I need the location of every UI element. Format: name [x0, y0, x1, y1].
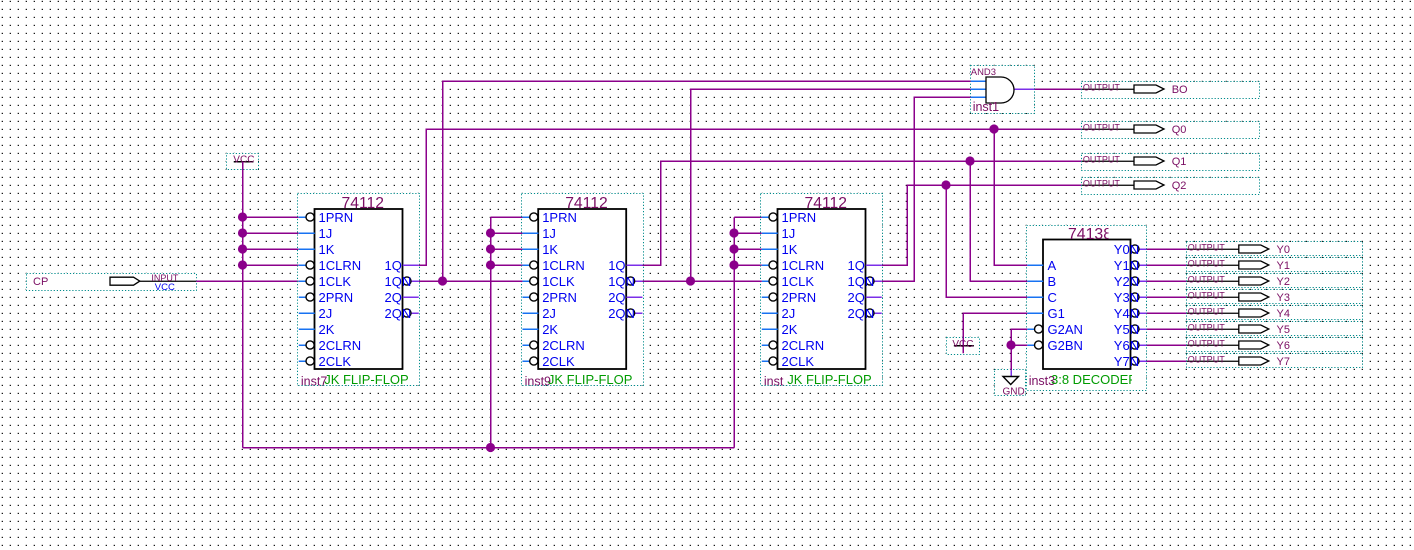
svg-text:2CLK: 2CLK: [319, 354, 352, 369]
svg-text:74112: 74112: [565, 195, 608, 212]
white symbol region backdrop: and-gate U4: [970, 66, 1035, 114]
junction Q1 net / decoder B drop: [965, 156, 974, 165]
svg-text:G2AN: G2AN: [1048, 322, 1083, 337]
svg-text:2K: 2K: [542, 322, 558, 337]
wire VCC tap to FF1 pin row y=217: [243, 216, 299, 218]
input pin CP (net CP, default VCC): [27, 273, 197, 293]
wire AND3 output to BO output pin: [1035, 88, 1082, 90]
output pin Y1: [1187, 258, 1363, 273]
junction FF3 riser / 1J: [729, 228, 738, 237]
svg-text:1Q: 1Q: [608, 258, 625, 273]
wire Q0 stub to output pin Q0: [1081, 128, 1083, 130]
wire FF1 1QN riser to AND3 input 1: [443, 81, 971, 281]
svg-text:3:8 DECODER: 3:8 DECODER: [1051, 372, 1138, 387]
output pin BO: [1082, 82, 1260, 99]
svg-text:Y5: Y5: [1277, 324, 1290, 336]
svg-text:1QN: 1QN: [848, 274, 875, 289]
white symbol region backdrop: output pin Q0: [1082, 122, 1260, 139]
junction VCC rail / FF1 1K: [238, 244, 247, 253]
svg-text:OUTPUT: OUTPUT: [1188, 307, 1226, 317]
svg-text:Y1N: Y1N: [1114, 258, 1139, 273]
junction Q0 net / decoder A drop: [989, 124, 998, 133]
svg-text:VCC: VCC: [233, 154, 254, 165]
svg-text:CP: CP: [33, 276, 48, 288]
svg-text:AND3: AND3: [971, 67, 996, 78]
white symbol region backdrop: output pin Y0: [1187, 242, 1363, 256]
svg-text:G2BN: G2BN: [1048, 338, 1083, 353]
svg-text:2QN: 2QN: [385, 306, 412, 321]
wire FF2 1QN to FF3 1CLK (clock chain): [642, 280, 761, 282]
svg-text:2Q: 2Q: [848, 290, 865, 305]
svg-text:Y7N: Y7N: [1114, 354, 1139, 369]
svg-text:A: A: [1048, 258, 1057, 273]
svg-text:1Q: 1Q: [848, 258, 865, 273]
svg-text:1CLK: 1CLK: [542, 274, 575, 289]
svg-text:1J: 1J: [319, 226, 333, 241]
wire FF3 1Q up-riser to Q2 net line: [882, 185, 1082, 265]
svg-text:1J: 1J: [542, 226, 556, 241]
svg-text:2QN: 2QN: [848, 306, 875, 321]
white symbol region backdrop: power VCC G1: [946, 337, 979, 354]
wire FF1 1Q up-riser to Q0 net line: [419, 129, 1082, 265]
svg-text:Y6N: Y6N: [1114, 338, 1139, 353]
junction FF2 1QN net: [686, 276, 695, 285]
junction FF2 riser / bottom rail: [486, 443, 495, 452]
svg-text:C: C: [1048, 290, 1057, 305]
svg-text:1K: 1K: [542, 242, 558, 257]
output pin Y2: [1187, 274, 1363, 289]
output pin Q2: [1082, 178, 1260, 195]
svg-text:2PRN: 2PRN: [542, 290, 577, 305]
svg-text:inst: inst: [764, 375, 784, 389]
wire VCC tap to FF3 pin row y=233: [734, 232, 762, 234]
svg-text:2CLRN: 2CLRN: [542, 338, 585, 353]
output pin Y3: [1187, 290, 1363, 305]
wire VCC tap to FF3 pin row y=265: [734, 264, 762, 266]
svg-text:1QN: 1QN: [608, 274, 635, 289]
wire VCC tap to FF2 pin row y=233: [491, 232, 523, 234]
white symbol region backdrop: jk flip-flop U1: [297, 193, 419, 386]
white symbol region backdrop: power VCC top-left: [226, 153, 258, 170]
junction VCC rail / FF1 1J: [238, 228, 247, 237]
output pin Q0: [1082, 122, 1260, 139]
wire Q1 drop to decoder input B: [970, 161, 1027, 281]
power VCC symbol (top-left, feeds JK flip-flop preset/J/K/clear rails): [227, 154, 259, 170]
wire VCC tap to FF3 pin row y=217: [734, 216, 762, 218]
junction VCC rail / FF1 1CLRN: [238, 260, 247, 269]
svg-text:OUTPUT: OUTPUT: [1188, 355, 1226, 365]
wire VCC vertical rail from VCC symbol down to bottom rail (x=242.5): [242, 162, 244, 448]
svg-text:74112: 74112: [805, 195, 848, 212]
junction FF3 riser / 1K: [729, 244, 738, 253]
svg-text:2K: 2K: [319, 322, 335, 337]
svg-text:2CLRN: 2CLRN: [782, 338, 825, 353]
wire Q0 drop to decoder input A: [994, 129, 1027, 265]
svg-text:1CLRN: 1CLRN: [782, 258, 825, 273]
white symbol region backdrop: output pin Q1: [1082, 154, 1260, 171]
wire decoder Y6N to output pin Y6: [1147, 344, 1187, 346]
wire VCC tap to FF3 pin row y=249: [734, 248, 762, 250]
jk flip-flop U2 74112 inst9 (bit1): [522, 194, 644, 389]
svg-text:OUTPUT: OUTPUT: [1188, 323, 1226, 333]
output pin Y0: [1187, 242, 1363, 257]
svg-text:2J: 2J: [319, 306, 333, 321]
svg-text:Y3N: Y3N: [1114, 290, 1139, 305]
junction FF2 riser / 1J: [486, 228, 495, 237]
power VCC symbol (feeds decoder G1): [947, 338, 980, 355]
svg-text:2CLK: 2CLK: [782, 354, 815, 369]
svg-text:Q0: Q0: [1172, 124, 1187, 136]
svg-text:1J: 1J: [782, 226, 796, 241]
svg-text:Y0N: Y0N: [1114, 242, 1139, 257]
svg-text:1PRN: 1PRN: [542, 210, 577, 225]
svg-text:1CLK: 1CLK: [319, 274, 352, 289]
wire VCC tap to FF1 pin row y=265: [243, 264, 299, 266]
junction FF3 riser / 1CLRN: [729, 260, 738, 269]
svg-text:2K: 2K: [782, 322, 798, 337]
junction FF2 riser / 1CLRN: [486, 260, 495, 269]
wire FF1 1QN to FF2 1CLK (clock chain): [419, 280, 523, 282]
white symbol region backdrop: input pin CP: [26, 273, 196, 290]
wire decoder Y5N to output pin Y5: [1147, 328, 1187, 330]
wire FF3 1QN to AND3 input 3: [882, 97, 971, 281]
svg-text:OUTPUT: OUTPUT: [1188, 339, 1226, 349]
white symbol region backdrop: output pin Y3: [1187, 290, 1363, 304]
white symbol region backdrop: output pin Y2: [1187, 274, 1363, 288]
svg-text:1K: 1K: [782, 242, 798, 257]
svg-text:2Q: 2Q: [385, 290, 402, 305]
wire VCC tap to FF2 pin row y=217: [491, 216, 523, 218]
svg-text:JK FLIP-FLOP: JK FLIP-FLOP: [787, 372, 872, 387]
svg-text:Y2N: Y2N: [1114, 274, 1139, 289]
white symbol region backdrop: output pin Y1: [1187, 258, 1363, 272]
wire Q2 drop to decoder input C: [946, 185, 1027, 297]
svg-text:OUTPUT: OUTPUT: [1188, 275, 1226, 285]
white symbol region backdrop: output pin Y7: [1187, 354, 1363, 368]
wire decoder Y7N to output pin Y7: [1147, 360, 1187, 362]
wire FF2 1QN riser to AND3 input 2: [691, 89, 971, 281]
white symbol region backdrop: output pin BO: [1082, 82, 1260, 99]
svg-text:1Q: 1Q: [385, 258, 402, 273]
output pin Y4: [1187, 306, 1363, 321]
wire VCC to decoder G1: [963, 313, 1027, 346]
svg-text:2PRN: 2PRN: [782, 290, 817, 305]
svg-text:JK FLIP-FLOP: JK FLIP-FLOP: [324, 372, 409, 387]
output pin Q1: [1082, 154, 1260, 171]
svg-text:Y7: Y7: [1277, 356, 1290, 368]
svg-text:B: B: [1048, 274, 1057, 289]
wire decoder Y0N to output pin Y0: [1147, 248, 1187, 250]
wire decoder Y3N to output pin Y3: [1147, 296, 1187, 298]
svg-text:inst1: inst1: [973, 100, 999, 114]
wire G2BN feed and drop to GND: [1011, 345, 1027, 370]
svg-text:Q1: Q1: [1172, 156, 1187, 168]
svg-text:2J: 2J: [782, 306, 796, 321]
white symbol region backdrop: output pin Y6: [1187, 338, 1363, 352]
wire VCC tap to FF2 pin row y=249: [491, 248, 523, 250]
svg-text:Y2: Y2: [1277, 276, 1290, 288]
svg-text:OUTPUT: OUTPUT: [1188, 259, 1226, 269]
svg-text:Y4: Y4: [1277, 308, 1290, 320]
svg-text:Y3: Y3: [1277, 292, 1290, 304]
svg-text:OUTPUT: OUTPUT: [1188, 243, 1226, 253]
decoder U5 74138 inst3 (3:8 decode): [1027, 226, 1147, 391]
svg-text:OUTPUT: OUTPUT: [1083, 155, 1121, 165]
svg-text:Y0: Y0: [1277, 244, 1290, 256]
svg-text:OUTPUT: OUTPUT: [1083, 123, 1121, 133]
wire decoder Y4N to output pin Y4: [1147, 312, 1187, 314]
junction FF2 riser / 1K: [486, 244, 495, 253]
junction FF1 1QN net: [438, 276, 447, 285]
output pin Y7: [1187, 354, 1363, 369]
svg-text:1CLK: 1CLK: [782, 274, 815, 289]
white symbol region backdrop: jk flip-flop U2: [521, 193, 643, 386]
svg-text:OUTPUT: OUTPUT: [1083, 179, 1121, 189]
power GND symbol (ties decoder G2AN/G2BN low): [995, 370, 1026, 398]
white symbol region backdrop: power GND: [995, 369, 1026, 396]
svg-text:1CLRN: 1CLRN: [319, 258, 362, 273]
junction Q2 net / decoder C drop: [941, 180, 950, 189]
svg-text:2CLRN: 2CLRN: [319, 338, 362, 353]
junction G2 tie / GND drop: [1006, 340, 1015, 349]
white symbol region backdrop: output pin Y4: [1187, 306, 1363, 320]
junction VCC rail / FF1 1PRN: [238, 212, 247, 221]
wire CP net from input pin to FF1 1CLK: [196, 280, 298, 282]
svg-text:74112: 74112: [342, 195, 385, 212]
white symbol region backdrop: output pin Q2: [1082, 178, 1260, 195]
wire decoder Y1N to output pin Y1: [1147, 264, 1187, 266]
svg-text:2QN: 2QN: [608, 306, 635, 321]
svg-text:OUTPUT: OUTPUT: [1083, 83, 1121, 93]
wire FF3 VCC riser (x=734) from 1PRN row down to bottom rail: [733, 217, 735, 448]
svg-text:OUTPUT: OUTPUT: [1188, 291, 1226, 301]
wire VCC tap to FF1 pin row y=249: [243, 248, 299, 250]
svg-text:2J: 2J: [542, 306, 556, 321]
svg-text:2CLK: 2CLK: [542, 354, 575, 369]
svg-text:Y6: Y6: [1277, 340, 1290, 352]
white symbol region backdrop: output pin Y5: [1187, 322, 1363, 336]
svg-text:G1: G1: [1048, 306, 1065, 321]
svg-text:JK FLIP-FLOP: JK FLIP-FLOP: [548, 372, 633, 387]
svg-text:Q2: Q2: [1172, 180, 1187, 192]
svg-text:Y4N: Y4N: [1114, 306, 1139, 321]
and-gate U4 AND3 inst1 (borrow output BO): [971, 66, 1035, 115]
wire VCC tap to FF1 pin row y=233: [243, 232, 299, 234]
wire G2AN feed: [1011, 329, 1027, 345]
white symbol region backdrop: jk flip-flop U3: [760, 193, 882, 386]
jk flip-flop U3 74112 inst (bit2): [761, 194, 883, 389]
svg-text:2Q: 2Q: [608, 290, 625, 305]
svg-text:1PRN: 1PRN: [319, 210, 354, 225]
svg-text:1K: 1K: [319, 242, 335, 257]
svg-text:Y1: Y1: [1277, 260, 1290, 272]
wire decoder Y2N to output pin Y2: [1147, 280, 1187, 282]
svg-text:BO: BO: [1172, 84, 1188, 96]
svg-text:1PRN: 1PRN: [782, 210, 817, 225]
svg-text:1CLRN: 1CLRN: [542, 258, 585, 273]
output pin Y5: [1187, 322, 1363, 337]
svg-text:1QN: 1QN: [385, 274, 412, 289]
jk flip-flop U1 74112 inst7 (bit0): [298, 194, 420, 389]
svg-text:2PRN: 2PRN: [319, 290, 354, 305]
wire bottom VCC rail (y=447.5) from x=242.5 to x=734: [243, 447, 735, 449]
wire VCC tap to FF2 pin row y=265: [491, 264, 523, 266]
svg-text:Y5N: Y5N: [1114, 322, 1139, 337]
wire FF2 VCC riser (x=490.5) from 1PRN row down to bottom rail: [490, 217, 492, 448]
wire FF2 1Q up-riser to Q1 net line: [642, 161, 1081, 265]
output pin Y6: [1187, 338, 1363, 353]
svg-text:74138: 74138: [1068, 226, 1112, 243]
svg-text:VCC: VCC: [155, 282, 175, 293]
white symbol region backdrop: decoder U5: [1026, 225, 1147, 390]
